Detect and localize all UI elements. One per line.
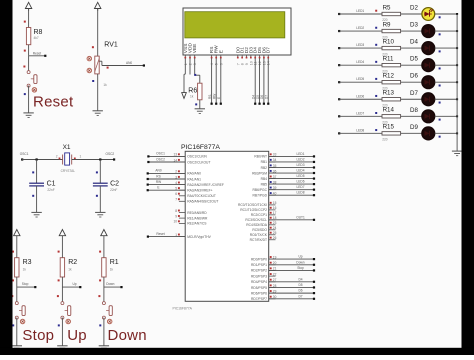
terminal dot OSC2 crystal — [113, 158, 115, 160]
resistor R3 — [15, 258, 19, 277]
state square R3 top — [12, 251, 14, 253]
svg-text:RS: RS — [156, 174, 160, 178]
wire U1 pin 35 to net LED3 — [269, 166, 314, 168]
LCD pin 14 state square — [267, 57, 269, 59]
LCD display LCD1 body — [183, 8, 291, 55]
svg-text:LED6: LED6 — [297, 180, 305, 184]
state square R2 top — [58, 251, 60, 253]
wire down to C2 — [99, 160, 101, 184]
U1 pin 38 stub — [269, 183, 276, 185]
wire U1 pin 18 to net OUT1 — [269, 219, 314, 221]
pin state square RV1 top — [92, 46, 94, 48]
svg-text:4: 4 — [210, 63, 214, 65]
wire down to C1 — [36, 160, 38, 184]
U1 pin 21 state square — [270, 267, 272, 269]
svg-text:LED7: LED7 — [356, 111, 364, 115]
LCD pin 8 state square — [241, 57, 243, 59]
terminal dot LED4 — [313, 172, 315, 174]
node Reset wire to net label — [29, 55, 46, 57]
U1 pin 21 stub — [269, 269, 276, 271]
svg-text:1: 1 — [184, 63, 188, 65]
svg-text:RV1: RV1 — [104, 41, 118, 48]
svg-text:14: 14 — [267, 61, 271, 65]
svg-text:RD0/PSP0: RD0/PSP0 — [251, 257, 267, 261]
terminal dot OSC2 — [147, 161, 149, 163]
wire U1 pin 33 to net LED1 — [269, 155, 314, 157]
wire net RS to U1 pin 3 — [148, 178, 186, 180]
terminal dot D4 — [254, 103, 256, 105]
svg-text:D7: D7 — [266, 47, 272, 53]
wire net RW to U1 pin 4 — [148, 184, 186, 186]
wire LED8 to R15 — [339, 132, 382, 134]
U1 pin 5 state square — [178, 187, 180, 189]
terminal dot OSC1 — [147, 155, 149, 157]
U1 pin 26 state square — [270, 237, 272, 239]
terminal dot Reset — [147, 236, 149, 238]
wire LCD E down — [220, 58, 222, 103]
svg-text:X1: X1 — [63, 144, 71, 151]
junction dot bus row 3 — [456, 47, 458, 49]
wire RV1 to ground — [97, 74, 99, 111]
svg-text:E: E — [157, 186, 159, 190]
U1 pin 35 stub — [269, 166, 276, 168]
wire button to ground (Up) — [61, 318, 63, 346]
terminal dot D7 — [267, 103, 269, 105]
LCD pin 2 state square — [189, 57, 191, 59]
svg-text:D7: D7 — [264, 95, 268, 99]
wire R13 to D7 — [401, 98, 422, 100]
wire power to R2 — [61, 238, 63, 258]
U1 pin 7 stub — [179, 200, 185, 202]
wire LCD RW down — [215, 58, 217, 103]
U1 pin 28 stub — [269, 286, 276, 288]
power symbol (RV1) — [95, 2, 101, 8]
terminal dot LED8 — [313, 194, 315, 196]
U1 pin 22 stub — [269, 275, 276, 277]
U1 pin 18 state square — [270, 217, 272, 219]
push button (reset) — [27, 71, 30, 74]
svg-text:OSC2: OSC2 — [156, 157, 165, 161]
svg-text:C2: C2 — [110, 181, 119, 188]
svg-text:RD6/PSP6: RD6/PSP6 — [251, 291, 267, 295]
svg-text:3: 3 — [193, 63, 197, 65]
U1 pin 17 state square — [270, 212, 272, 214]
U1 pin 22 state square — [270, 273, 272, 275]
button clicker symbol — [32, 88, 37, 93]
wire LED2 to R9 — [339, 30, 382, 32]
U1 pin 3 state square — [178, 176, 180, 178]
wire junction to button — [28, 56, 30, 71]
U1 pin 15 state square — [270, 202, 272, 204]
U1 pin 37 state square — [270, 176, 272, 178]
U1 pin 30 state square — [270, 296, 272, 298]
terminal dot OUT1 — [313, 219, 315, 221]
wire R14 to D8 — [401, 115, 422, 117]
U1 pin 38 state square — [270, 181, 272, 183]
terminal dot RW — [147, 184, 149, 186]
svg-text:R14: R14 — [383, 107, 395, 114]
svg-text:R11: R11 — [383, 55, 394, 62]
terminal dot D5 — [258, 103, 260, 105]
junction dot bus row 7 — [456, 115, 458, 117]
wire button to ground (Stop) — [16, 318, 18, 346]
state square C2 top — [96, 171, 98, 173]
terminal dot LED2 — [313, 161, 315, 163]
bottom letterbox bar — [0, 348, 474, 355]
svg-text:E: E — [217, 97, 221, 99]
svg-text:AN0: AN0 — [155, 169, 161, 173]
node Stop wire to net label — [17, 286, 36, 288]
U1 pin 25 state square — [270, 232, 272, 234]
wiper state square — [107, 67, 109, 69]
wire D3 to bus — [435, 30, 457, 32]
state square VEE corner — [194, 74, 196, 76]
svg-text:RD5/PSP5: RD5/PSP5 — [251, 286, 267, 290]
terminal dot D6 — [313, 292, 315, 294]
U1 pin 4 stub — [179, 184, 185, 186]
svg-text:RD4/PSP4: RD4/PSP4 — [251, 280, 267, 284]
resistor R6 — [198, 83, 202, 100]
svg-text:2: 2 — [189, 63, 193, 65]
LED D8 — [422, 110, 435, 123]
svg-text:R5: R5 — [383, 4, 391, 11]
push button (Up) — [61, 302, 64, 305]
terminal dot Stop — [313, 269, 315, 271]
U1 pin 34 stub — [269, 161, 276, 163]
svg-text:RB1: RB1 — [261, 160, 268, 164]
LCD pin 7 stub — [237, 55, 239, 58]
svg-text:R8: R8 — [34, 29, 43, 36]
svg-text:LED8: LED8 — [356, 128, 364, 132]
LED D6 — [422, 76, 435, 89]
wire R11 to D5 — [401, 64, 422, 66]
state square above Up button — [57, 295, 59, 297]
RV1 adjust up clicker — [87, 56, 92, 61]
resistor R11 — [382, 63, 401, 66]
terminal dot LED1 — [313, 155, 315, 157]
left letterbox bar — [0, 0, 13, 355]
resistor R5 — [382, 12, 401, 15]
U1 pin 33 stub — [269, 155, 276, 157]
svg-text:LED1: LED1 — [356, 9, 364, 13]
ground (reset button) — [23, 112, 33, 114]
junction dot Reset net — [44, 55, 46, 57]
svg-text:RW: RW — [212, 94, 216, 99]
wire LED6 to R13 — [339, 98, 382, 100]
svg-text:D2: D2 — [410, 5, 418, 12]
svg-text:R2: R2 — [68, 259, 77, 266]
resistor R9 — [382, 29, 401, 32]
wire LCD D5 down — [259, 58, 261, 103]
wire LCD RS down — [211, 58, 213, 103]
U1 pin 13 state square — [178, 153, 180, 155]
terminal dot D5 — [313, 286, 315, 288]
LED D2 — [422, 8, 435, 21]
crystal X1 — [62, 155, 64, 165]
U1 pin 25 stub — [269, 234, 276, 236]
U1 pin 9 stub — [179, 217, 185, 219]
state square D7 cathode — [439, 102, 441, 104]
U1 pin 7 state square — [178, 198, 180, 200]
ground (Up button) — [57, 345, 67, 347]
LCD pin 5 state square — [215, 57, 217, 59]
svg-text:RE0/AN5/RD: RE0/AN5/RD — [187, 211, 207, 215]
svg-text:RA2/AN2/VREF-/CVREF: RA2/AN2/VREF-/CVREF — [187, 183, 224, 187]
svg-text:D6: D6 — [298, 289, 302, 293]
wire net Reset to U1 pin 1 — [148, 236, 185, 238]
LCD pin 12 state square — [259, 57, 261, 59]
U1 pin 1 stub — [179, 236, 185, 238]
svg-text:RC1/T1OSI/CCP2: RC1/T1OSI/CCP2 — [240, 208, 267, 212]
terminal dot LED5 — [313, 177, 315, 179]
LCD pin 10 stub — [250, 55, 252, 58]
svg-text:R15: R15 — [383, 124, 395, 131]
RV1 adjust down clicker — [87, 68, 92, 73]
state square LED4 — [375, 61, 377, 63]
LCD pin 4 stub — [211, 55, 213, 58]
wire R8 to junction — [28, 45, 30, 56]
wire U1 pin 28 to net D5 — [269, 286, 314, 288]
power symbol (Stop pull-up) — [14, 230, 20, 236]
power symbol (Down pull-up) — [101, 230, 107, 236]
svg-text:OSC1/CLKIN: OSC1/CLKIN — [187, 155, 207, 159]
svg-text:9: 9 — [175, 214, 177, 218]
wire LED4 to R11 — [339, 64, 382, 66]
state square below Down button — [99, 324, 101, 326]
U1 pin 10 stub — [179, 222, 185, 224]
LCD pin 12 stub — [259, 55, 261, 58]
state square LED2 — [375, 27, 377, 29]
junction dot bus row 4 — [456, 64, 458, 66]
svg-text:D7: D7 — [298, 294, 302, 298]
svg-text:RD3/PSP3: RD3/PSP3 — [251, 274, 267, 278]
wire net OSC2 to U1 pin 14 — [148, 161, 185, 163]
svg-text:AN0: AN0 — [126, 61, 132, 65]
svg-text:RD7/PSP7: RD7/PSP7 — [251, 297, 267, 301]
svg-text:RC6/TX/CK: RC6/TX/CK — [250, 233, 268, 237]
wire net OSC1 to U1 pin 13 — [148, 155, 185, 157]
wire net AN0 to U1 pin 2 — [148, 172, 186, 174]
wire R10 to D4 — [401, 47, 422, 49]
svg-text:OSC2: OSC2 — [106, 152, 115, 156]
state square below reset button — [24, 93, 26, 95]
svg-text:D8: D8 — [410, 107, 418, 114]
svg-text:RB7/PGD: RB7/PGD — [253, 193, 268, 197]
svg-text:Reset: Reset — [33, 93, 74, 110]
wire R6 to ground — [199, 100, 201, 109]
svg-text:22nF: 22nF — [110, 188, 117, 192]
svg-text:RD2/PSP2: RD2/PSP2 — [251, 269, 267, 273]
right letterbox bar — [462, 0, 474, 355]
svg-text:Up: Up — [67, 327, 87, 344]
wire VDD stub — [189, 58, 191, 74]
svg-text:OSC1: OSC1 — [20, 152, 29, 156]
svg-text:Down: Down — [108, 327, 147, 344]
svg-text:R9: R9 — [383, 21, 391, 28]
LCD pin 3 state square — [194, 57, 196, 59]
node Up wire to net label — [62, 286, 80, 288]
wire crystal to OSC2 — [72, 159, 114, 161]
svg-text:R3: R3 — [23, 259, 32, 266]
terminal dot Down — [313, 264, 315, 266]
svg-text:Down: Down — [106, 282, 114, 286]
U1 pin 26 stub — [269, 239, 276, 241]
svg-text:RC2/CCP1: RC2/CCP1 — [251, 213, 267, 217]
U1 pin 3 stub — [179, 178, 185, 180]
LCD pin 13 stub — [263, 55, 265, 58]
junction dot Down — [120, 286, 122, 288]
junction dot Up — [79, 286, 81, 288]
LCD pin 6 state square — [220, 57, 222, 59]
svg-text:LED8: LED8 — [297, 191, 305, 195]
pin state square R8 top — [24, 21, 26, 23]
U1 pin 33 state square — [270, 153, 272, 155]
wire D7 to bus — [435, 98, 457, 100]
junction dot Stop — [34, 286, 36, 288]
LCD green screen — [185, 12, 285, 38]
svg-text:RE1/AN6/WR: RE1/AN6/WR — [187, 216, 208, 220]
terminal dot LED5 — [338, 81, 340, 83]
wire D8 to bus — [435, 115, 457, 117]
wire R1 to button — [103, 277, 105, 302]
svg-text:4k7: 4k7 — [34, 36, 39, 40]
wire LED cathode bus — [456, 14, 458, 151]
U1 pin 20 state square — [270, 262, 272, 264]
junction dot bus row 8 — [456, 132, 458, 134]
svg-text:RB5: RB5 — [261, 182, 268, 186]
U1 pin 6 state square — [178, 193, 180, 195]
U1 pin 37 stub — [269, 178, 276, 180]
U1 pin 39 state square — [270, 187, 272, 189]
svg-text:Up: Up — [298, 255, 302, 259]
terminal dot D4 — [313, 281, 315, 283]
resistor R12 — [382, 81, 401, 84]
svg-text:D6: D6 — [410, 73, 418, 80]
LED D7 — [422, 93, 435, 106]
svg-text:R1: R1 — [110, 259, 119, 266]
wire power to RV1 — [97, 9, 99, 56]
svg-text:OSC2/CLKOUT: OSC2/CLKOUT — [187, 160, 210, 164]
ground (Down button) — [99, 345, 109, 347]
state square D5 cathode — [439, 67, 441, 69]
wire LED1 to R5 — [339, 13, 382, 15]
svg-text:RA5/AN4/SS/C2OUT: RA5/AN4/SS/C2OUT — [187, 200, 218, 204]
state square LED6 — [375, 95, 377, 97]
LCD pin 11 stub — [254, 55, 256, 58]
state square R6 bottom — [195, 103, 197, 105]
svg-text:2: 2 — [56, 155, 58, 159]
svg-text:6: 6 — [219, 63, 223, 65]
U1 pin 36 stub — [269, 172, 276, 174]
svg-text:D4: D4 — [410, 39, 418, 46]
junction dot bus row 5 — [456, 81, 458, 83]
wire D6 to bus — [435, 81, 457, 83]
U1 pin 5 stub — [179, 189, 185, 191]
svg-text:LED4: LED4 — [356, 60, 364, 64]
wire LED7 to R14 — [339, 115, 382, 117]
U1 pin 19 stub — [269, 258, 276, 260]
U1 pin 34 state square — [270, 159, 272, 161]
svg-text:LED3: LED3 — [297, 163, 305, 167]
wire U1 pin 27 to net D4 — [269, 281, 314, 283]
wire U1 pin 34 to net LED2 — [269, 161, 314, 163]
svg-text:RA4/T0CKI/C1OUT: RA4/T0CKI/C1OUT — [187, 194, 216, 198]
svg-text:R12: R12 — [383, 73, 395, 80]
potentiometer RV1 body — [95, 56, 99, 74]
state square D6 cathode — [439, 85, 441, 87]
junction dot C1 — [36, 158, 38, 160]
U1 pin 15 stub — [269, 204, 276, 206]
pin state square crystal right — [74, 158, 76, 160]
svg-text:C1: C1 — [47, 181, 56, 188]
wire D5 to bus — [435, 64, 457, 66]
wire U1 pin 30 to net D7 — [269, 298, 314, 300]
U1 pin 29 state square — [270, 290, 272, 292]
svg-text:Stop: Stop — [22, 327, 54, 344]
U1 pin 17 stub — [269, 214, 276, 216]
svg-text:LED3: LED3 — [356, 43, 364, 47]
wire power to R8 — [28, 9, 30, 28]
svg-text:LED7: LED7 — [297, 185, 305, 189]
svg-text:RC5/SDO: RC5/SDO — [252, 228, 267, 232]
junction dot bus row 2 — [456, 30, 458, 32]
U1 pin 16 state square — [270, 207, 272, 209]
U1 pin 19 state square — [270, 256, 272, 258]
svg-text:RB3/PGM: RB3/PGM — [252, 171, 267, 175]
LCD pin 1 stub — [184, 55, 186, 58]
wire D2 to bus — [435, 13, 457, 15]
svg-text:Reset: Reset — [33, 52, 41, 56]
U1 pin 16 stub — [269, 209, 276, 211]
node Down wire to net label — [104, 286, 122, 288]
U1 pin 39 stub — [269, 189, 276, 191]
terminal dot LED3 — [338, 47, 340, 49]
svg-text:CRYSTAL: CRYSTAL — [61, 169, 76, 173]
U1 pin 14 state square — [178, 159, 180, 161]
state square above Down button — [98, 295, 100, 297]
svg-text:R10: R10 — [383, 38, 395, 45]
svg-text:OUT1: OUT1 — [296, 215, 305, 219]
LCD pin 11 state square — [254, 57, 256, 59]
U1 pin 4 state square — [178, 182, 180, 184]
wire power to R3 — [16, 238, 18, 258]
svg-text:Up: Up — [73, 282, 77, 286]
terminal dot LED6 — [338, 98, 340, 100]
push button (Down) — [102, 302, 105, 305]
state square LED7 — [375, 112, 377, 114]
svg-text:PIC16F877A: PIC16F877A — [173, 307, 193, 311]
wire D4 to bus — [435, 47, 457, 49]
svg-text:RC0/T1OSO/T1CKI: RC0/T1OSO/T1CKI — [238, 203, 267, 207]
terminal dot LED4 — [338, 64, 340, 66]
ground (C2) — [95, 211, 105, 213]
svg-text:LED4: LED4 — [297, 169, 305, 173]
LED D9 — [422, 127, 435, 140]
LCD pin 8 stub — [241, 55, 243, 58]
U1 pin 40 stub — [269, 194, 276, 196]
svg-text:RC7/RX/DT: RC7/RX/DT — [250, 238, 267, 242]
wire power to R1 — [103, 238, 105, 258]
U1 pin 30 stub — [269, 298, 276, 300]
U1 pin 23 state square — [270, 222, 272, 224]
wire net E to U1 pin 5 — [148, 189, 186, 191]
wire U1 pin 38 to net LED6 — [269, 183, 314, 185]
LCD pin 6 stub — [220, 55, 222, 58]
state square D2 cathode — [439, 16, 441, 18]
wire LCD D4 down — [254, 58, 256, 103]
state square below Stop button — [12, 324, 14, 326]
wire LED5 to R12 — [339, 81, 382, 83]
